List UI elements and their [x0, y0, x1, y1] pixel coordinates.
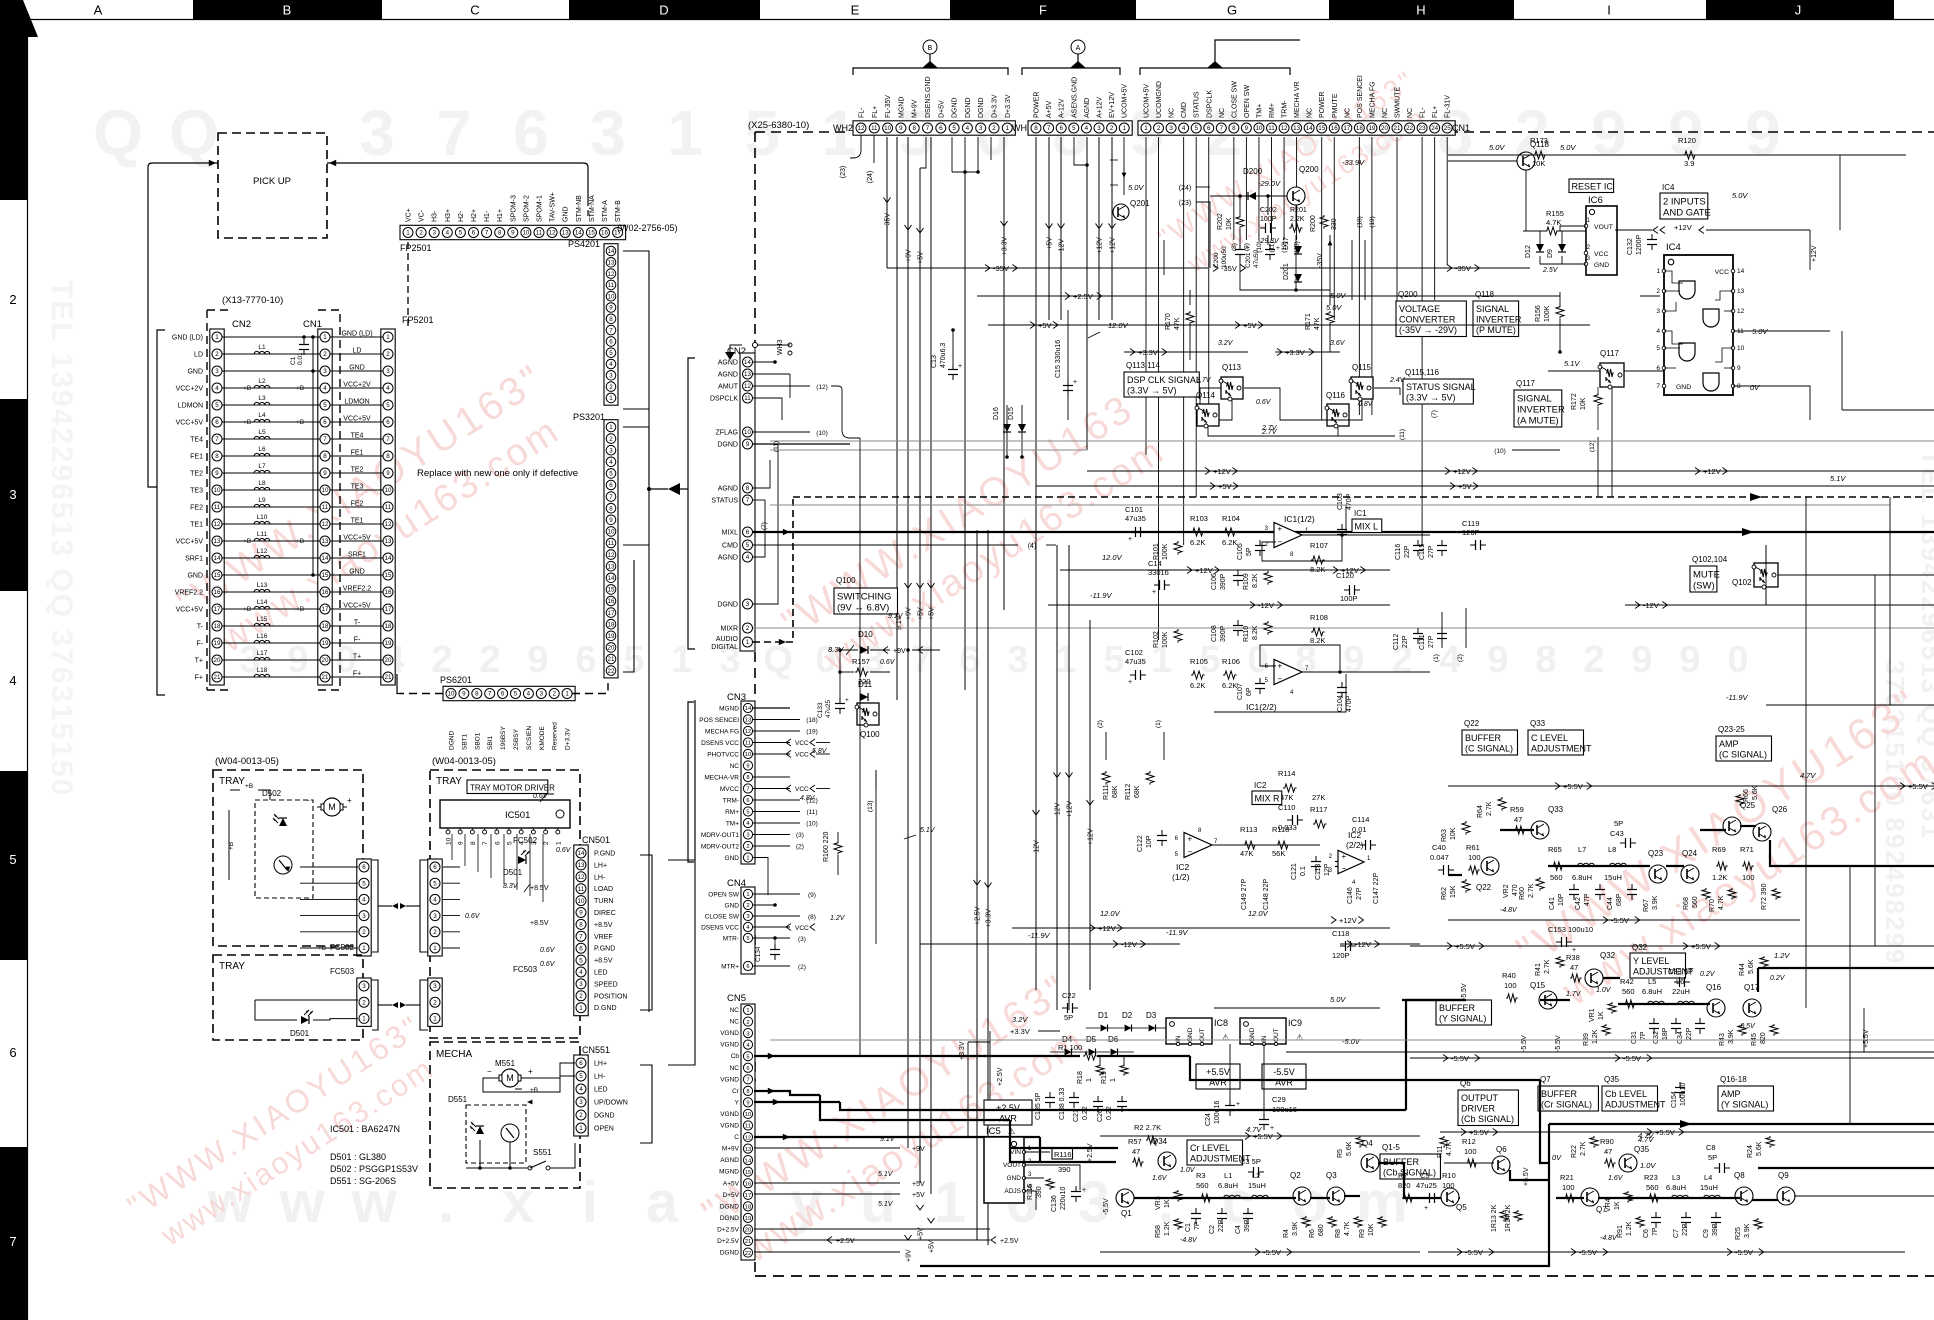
svg-text:2: 2 [579, 993, 583, 1000]
svg-text:AVR: AVR [999, 1114, 1017, 1124]
svg-text:IC501: IC501 [505, 810, 530, 821]
svg-text:MGND: MGND [719, 706, 739, 713]
svg-text:7: 7 [482, 841, 489, 845]
IC5 box [984, 1137, 1024, 1203]
svg-text:Q200: Q200 [1398, 290, 1418, 299]
svg-text:(2): (2) [1457, 654, 1464, 662]
svg-text:10: 10 [745, 752, 751, 758]
svg-text:DGND: DGND [720, 1215, 739, 1222]
svg-text:18: 18 [608, 621, 615, 628]
svg-text:R3: R3 [1196, 1171, 1206, 1180]
svg-text:100: 100 [1464, 1147, 1477, 1156]
svg-text:Reserved: Reserved [552, 722, 559, 750]
svg-text:7: 7 [1047, 125, 1051, 132]
svg-text:3: 3 [579, 981, 583, 988]
svg-text:21: 21 [608, 656, 615, 663]
svg-text:9: 9 [215, 470, 219, 477]
svg-text:11: 11 [322, 504, 329, 511]
bus +5V b [1036, 485, 1934, 487]
CN551 bracket [640, 1065, 652, 1143]
svg-text:D+3.3V: D+3.3V [992, 94, 999, 118]
svg-text:DSP CLK SIGNAL: DSP CLK SIGNAL [1127, 375, 1201, 385]
svg-text:Q32: Q32 [1632, 943, 1648, 952]
svg-text:R40: R40 [1502, 971, 1516, 980]
wire DGND bus [951, 137, 953, 172]
bus +3.3V [1124, 351, 1248, 353]
svg-text:-11.9V: -11.9V [1166, 928, 1189, 937]
svg-text:Q35: Q35 [1634, 1145, 1650, 1154]
svg-text:47K: 47K [1240, 849, 1253, 858]
svg-text:1.6V: 1.6V [1152, 1175, 1168, 1182]
svg-text:5: 5 [579, 1073, 583, 1080]
svg-text:R202: R202 [1217, 213, 1224, 230]
svg-text:(19): (19) [1369, 216, 1376, 228]
svg-text:SRF1: SRF1 [185, 556, 203, 563]
svg-text:D201: D201 [1283, 263, 1290, 280]
svg-text:(24): (24) [1179, 185, 1191, 192]
svg-text:(3): (3) [798, 936, 806, 943]
svg-text:R102: R102 [1153, 631, 1160, 648]
svg-text:470P: 470P [1346, 695, 1353, 712]
svg-text:AGND: AGND [1084, 98, 1091, 118]
svg-text:8.2K: 8.2K [1310, 636, 1325, 645]
svg-text:10K: 10K [1580, 397, 1587, 410]
svg-text:6: 6 [513, 97, 549, 169]
svg-text:12: 12 [322, 521, 329, 528]
svg-text:10: 10 [1256, 125, 1263, 132]
svg-text:3: 3 [609, 447, 613, 454]
svg-text:13: 13 [578, 862, 585, 869]
svg-text:L4: L4 [1704, 1173, 1712, 1182]
svg-text:10: 10 [608, 293, 615, 300]
svg-text:D: D [659, 3, 668, 18]
svg-text:R104: R104 [1222, 514, 1240, 523]
wire thick Cb route [1190, 1056, 1540, 1080]
svg-text:L8: L8 [258, 480, 266, 487]
svg-text:17: 17 [385, 606, 392, 613]
svg-text:ZFLAG: ZFLAG [715, 430, 738, 437]
svg-text:6.8uH: 6.8uH [1572, 873, 1592, 882]
svg-text:TRAY MOTOR DRIVER: TRAY MOTOR DRIVER [470, 783, 555, 792]
svg-text:Q1-5: Q1-5 [1382, 1143, 1400, 1152]
IC4 and gates [1679, 281, 1695, 299]
svg-text:Cb: Cb [731, 1053, 740, 1060]
svg-text:DGND: DGND [952, 97, 959, 118]
svg-text:Q102,104: Q102,104 [1692, 555, 1728, 564]
red watermark 4 [1508, 679, 1934, 1024]
svg-text:(3): (3) [796, 832, 804, 839]
svg-text:6: 6 [386, 419, 390, 426]
svg-text:Q22: Q22 [1476, 883, 1492, 892]
svg-text:+12V: +12V [1097, 237, 1104, 254]
connector WH1 [1028, 121, 1132, 135]
svg-text:M+9V: M+9V [912, 99, 919, 118]
svg-text:+12V: +12V [1213, 467, 1231, 476]
wire M551 to CN551 [525, 1063, 575, 1078]
svg-text:Q32: Q32 [1600, 951, 1616, 960]
svg-text:R113: R113 [1240, 825, 1257, 834]
svg-text:Q9: Q9 [1778, 1171, 1789, 1180]
svg-text:T+: T+ [353, 654, 361, 661]
connector FP2501 [400, 225, 626, 239]
svg-text:D.GND: D.GND [594, 1005, 617, 1012]
svg-text:LH+: LH+ [594, 862, 607, 869]
svg-text:DSENS VCC: DSENS VCC [701, 925, 739, 932]
svg-text:9: 9 [386, 470, 390, 477]
connector CN1 left stack [318, 329, 332, 685]
svg-text:47u35: 47u35 [1125, 657, 1146, 666]
bus -5.5V cr [1100, 1251, 1420, 1253]
svg-text:3.7V: 3.7V [1196, 377, 1212, 384]
svg-text:1: 1 [1006, 125, 1010, 132]
svg-text:-5.5V: -5.5V [1735, 1248, 1753, 1257]
svg-text:11: 11 [871, 125, 878, 132]
svg-text:R44: R44 [1739, 963, 1746, 976]
svg-text:2: 2 [992, 125, 996, 132]
svg-text:C138 0.33: C138 0.33 [1059, 1088, 1066, 1120]
svg-text:7: 7 [609, 327, 613, 334]
svg-text:Q23: Q23 [1648, 849, 1664, 858]
svg-text:2.7K: 2.7K [1544, 959, 1551, 974]
svg-text:GND: GND [1676, 384, 1691, 391]
svg-text:FL+: FL+ [1432, 106, 1439, 118]
svg-text:9: 9 [1591, 97, 1627, 169]
svg-text:5P: 5P [1614, 819, 1623, 828]
svg-text:16: 16 [322, 589, 329, 596]
svg-text:POWER: POWER [1034, 92, 1041, 118]
svg-text:R57: R57 [1128, 1137, 1142, 1146]
svg-text:2.7K: 2.7K [1528, 883, 1535, 898]
svg-text:4: 4 [1656, 328, 1660, 335]
svg-text:16: 16 [601, 230, 608, 237]
photo transistor D551 [501, 1124, 519, 1142]
svg-text:CN2: CN2 [232, 319, 251, 330]
svg-text:C108: C108 [1211, 625, 1218, 642]
svg-text:6: 6 [215, 419, 219, 426]
svg-text:13: 13 [744, 371, 751, 378]
wire MIXR [753, 627, 1934, 629]
svg-text:7P: 7P [1640, 1031, 1647, 1040]
svg-text:VIN: VIN [1010, 1149, 1021, 1156]
svg-text:7: 7 [746, 1078, 749, 1084]
svg-text:+5V: +5V [1243, 321, 1257, 330]
svg-text:4: 4 [609, 361, 613, 368]
svg-text:C6: C6 [1643, 1229, 1650, 1238]
svg-text:(X13-7770-10): (X13-7770-10) [222, 295, 283, 306]
svg-text:Q200: Q200 [1299, 165, 1319, 174]
svg-text:IC4: IC4 [1662, 183, 1675, 192]
bracket circled B [853, 68, 1008, 75]
svg-text:5: 5 [9, 852, 16, 867]
svg-text:BUFFER: BUFFER [1465, 733, 1502, 743]
svg-text:H1-: H1- [484, 210, 491, 222]
svg-text:+8.5V: +8.5V [594, 958, 613, 965]
svg-text:5: 5 [1072, 125, 1076, 132]
svg-text:20: 20 [1381, 125, 1388, 132]
box -5.5V AVR [1262, 1064, 1306, 1089]
svg-text:9: 9 [746, 441, 750, 448]
svg-text:-35V: -35V [1317, 253, 1324, 268]
svg-text:−: − [1188, 847, 1193, 856]
motor M tray left [323, 798, 341, 816]
svg-text:R70: R70 [1709, 899, 1716, 912]
svg-text:9: 9 [899, 125, 903, 132]
svg-text:L13: L13 [257, 582, 268, 589]
svg-text:11: 11 [1268, 125, 1275, 132]
svg-text:R108: R108 [1310, 613, 1328, 622]
svg-text:SWMUTE: SWMUTE [1395, 87, 1402, 118]
connector CN2 main [740, 353, 755, 651]
svg-text:3: 3 [1007, 639, 1028, 681]
svg-text:DGND: DGND [449, 731, 456, 750]
wire IC2a out [1212, 844, 1320, 846]
svg-text:DGND: DGND [965, 97, 972, 118]
svg-text:(P MUTE): (P MUTE) [1476, 325, 1516, 335]
svg-text:14: 14 [575, 230, 582, 237]
svg-text:6: 6 [579, 1060, 583, 1067]
svg-text:4: 4 [386, 385, 390, 392]
svg-text:3: 3 [746, 601, 750, 608]
wire +5V long b [930, 137, 932, 1194]
svg-text:1.7V: 1.7V [1566, 991, 1582, 998]
svg-text:0: 0 [1727, 639, 1748, 681]
svg-text:4: 4 [1085, 125, 1089, 132]
svg-text:R62: R62 [1441, 887, 1448, 900]
svg-text:12: 12 [578, 874, 585, 881]
left ruler line [27, 20, 29, 1320]
svg-text:0V: 0V [1552, 1153, 1562, 1162]
svg-text:ADJUSTMENT: ADJUSTMENT [1531, 744, 1592, 754]
svg-text:AMP: AMP [1721, 1089, 1741, 1099]
svg-text:15: 15 [385, 572, 392, 579]
svg-text:4.7K: 4.7K [1546, 218, 1561, 227]
svg-text:R111: R111 [1103, 784, 1110, 800]
svg-text:12: 12 [745, 1135, 751, 1141]
capacitor C1 left stack [303, 339, 305, 345]
svg-text:Q16: Q16 [1706, 983, 1722, 992]
svg-text:390: 390 [1058, 1165, 1071, 1174]
svg-text:+2.5V: +2.5V [975, 906, 982, 925]
svg-text:CN501: CN501 [582, 835, 610, 845]
svg-text:47: 47 [1132, 1147, 1140, 1156]
svg-text:22: 22 [745, 1251, 751, 1257]
svg-text:L12: L12 [257, 548, 268, 555]
mecha box [430, 1042, 580, 1188]
svg-text:14: 14 [322, 555, 329, 562]
connector FC502 left [357, 859, 371, 956]
svg-text:(Cb SIGNAL): (Cb SIGNAL) [1461, 1114, 1514, 1124]
svg-text:R11: R11 [1437, 1146, 1444, 1158]
svg-text:MECHA FG: MECHA FG [705, 729, 739, 736]
svg-text:+2.5V: +2.5V [1073, 292, 1093, 301]
svg-text:FL-31V: FL-31V [1445, 95, 1452, 118]
svg-text:+: + [1188, 835, 1193, 844]
svg-text:(11): (11) [1399, 429, 1406, 440]
svg-text:15: 15 [322, 572, 329, 579]
svg-text:5: 5 [609, 471, 613, 478]
svg-text:LOAD: LOAD [594, 886, 613, 893]
svg-text:+B: +B [245, 783, 253, 790]
svg-text:5: 5 [362, 880, 366, 887]
svg-text:100K: 100K [1162, 543, 1169, 560]
svg-text:11: 11 [744, 395, 751, 402]
svg-text:R101: R101 [1153, 543, 1160, 560]
svg-text:+5.5V: +5.5V [1206, 1067, 1230, 1077]
svg-text:14: 14 [1306, 125, 1313, 132]
svg-text:0.22: 0.22 [1106, 1106, 1113, 1120]
svg-text:L5: L5 [258, 429, 266, 436]
CN5 right wires [754, 1147, 900, 1149]
svg-text:AGND: AGND [718, 486, 738, 493]
svg-text:9: 9 [609, 305, 613, 312]
svg-text:7: 7 [386, 436, 390, 443]
svg-text:+: + [1236, 1101, 1240, 1108]
svg-text:G: G [1227, 3, 1237, 18]
svg-text:M: M [328, 802, 336, 812]
svg-text:6: 6 [362, 864, 366, 871]
svg-text:AND GATE: AND GATE [1663, 208, 1711, 219]
svg-text:-29.0V: -29.0V [1258, 179, 1281, 188]
svg-text:8: 8 [215, 453, 219, 460]
svg-text:5.6K: 5.6K [1756, 1141, 1763, 1156]
svg-text:14: 14 [1737, 268, 1745, 275]
connector CN4 [741, 887, 755, 974]
wires CN2-CN1 rows with inductors [222, 336, 320, 338]
svg-text:560: 560 [1692, 896, 1699, 908]
svg-text:6P: 6P [1246, 687, 1253, 696]
svg-text:RESET IC: RESET IC [1572, 182, 1614, 192]
svg-text:+B: +B [243, 419, 251, 426]
IC9 box [1240, 1018, 1286, 1044]
svg-text:+12V: +12V [1674, 223, 1692, 232]
box RESET IC [1569, 179, 1614, 193]
svg-text:10: 10 [522, 230, 529, 237]
svg-text:L5: L5 [1648, 977, 1656, 986]
svg-text:+8.5V: +8.5V [530, 885, 549, 892]
svg-text:2.5V: 2.5V [1542, 267, 1559, 274]
svg-text:⚠: ⚠ [1222, 1033, 1229, 1042]
svg-text:11: 11 [578, 886, 585, 893]
svg-text:C43: C43 [1610, 829, 1624, 838]
svg-text:680: 680 [1318, 1224, 1325, 1236]
svg-text:13: 13 [608, 563, 615, 570]
wires q113 cluster [1200, 388, 1221, 404]
svg-text:1: 1 [609, 424, 613, 431]
svg-text:(18): (18) [1356, 216, 1363, 228]
svg-text:.: . [438, 1170, 454, 1235]
svg-text:R42: R42 [1620, 977, 1634, 986]
svg-text:1: 1 [746, 1008, 749, 1014]
svg-text:BUFFER: BUFFER [1439, 1003, 1476, 1013]
svg-text:(Cr SIGNAL): (Cr SIGNAL) [1541, 1100, 1592, 1110]
svg-text:1: 1 [934, 1170, 966, 1235]
svg-text:MECHA VR: MECHA VR [1294, 81, 1301, 118]
svg-text:GND: GND [725, 903, 740, 910]
svg-text:120P: 120P [1332, 951, 1350, 960]
svg-text:15K: 15K [1450, 885, 1457, 898]
svg-text:+B: +B [296, 419, 304, 426]
svg-text:-5.5V: -5.5V [1273, 1067, 1295, 1077]
svg-text:0.6V: 0.6V [880, 659, 896, 666]
svg-text:8: 8 [1737, 383, 1741, 390]
svg-text:L7: L7 [258, 463, 266, 470]
svg-text:A-12V: A-12V [1059, 98, 1066, 118]
diode D501 right [518, 850, 530, 864]
svg-text:Q33: Q33 [1530, 719, 1546, 728]
svg-text:6: 6 [1207, 125, 1211, 132]
svg-text:6: 6 [9, 1045, 16, 1060]
svg-text:21: 21 [385, 674, 392, 681]
svg-text:i: i [582, 1170, 598, 1235]
svg-text:8: 8 [323, 453, 327, 460]
diode D502 dashed box [255, 800, 313, 898]
svg-text:5: 5 [746, 1054, 749, 1060]
svg-text:1.2K: 1.2K [1164, 1221, 1171, 1236]
svg-text:VCC: VCC [795, 786, 809, 793]
svg-text:MECHA-VR: MECHA-VR [704, 775, 739, 782]
svg-text:3.9K: 3.9K [1728, 1029, 1735, 1044]
svg-text:13: 13 [385, 538, 392, 545]
svg-text:M551: M551 [495, 1059, 516, 1068]
svg-text:R8: R8 [1335, 1229, 1342, 1238]
wires CN4 [753, 893, 800, 895]
svg-text:6.8uH: 6.8uH [1642, 987, 1662, 996]
svg-text:14: 14 [744, 359, 751, 366]
bracket circled A [1022, 68, 1120, 75]
svg-text:GND: GND [187, 573, 203, 580]
svg-text:13: 13 [1737, 288, 1745, 295]
svg-text:12: 12 [214, 521, 221, 528]
svg-text:MTR-: MTR- [723, 936, 739, 943]
svg-text:+5V: +5V [918, 251, 925, 264]
svg-text:12.0V: 12.0V [1108, 321, 1129, 330]
svg-text:-11.9V: -11.9V [1090, 591, 1113, 600]
svg-text:C111: C111 [1419, 634, 1426, 650]
svg-text:-12V: -12V [1059, 239, 1066, 254]
svg-text:19: 19 [1368, 125, 1375, 132]
svg-text:D502 : PSGGP1S53V: D502 : PSGGP1S53V [330, 1164, 418, 1174]
svg-text:GND (LD): GND (LD) [341, 331, 372, 338]
svg-text:UCOM+5V: UCOM+5V [1144, 84, 1151, 118]
svg-text:+3.3V: +3.3V [959, 1041, 966, 1060]
svg-text:3.9K: 3.9K [1652, 895, 1659, 910]
svg-text:2.2K: 2.2K [1290, 216, 1305, 223]
wire +9V long [907, 137, 909, 1148]
svg-text:6: 6 [609, 339, 613, 346]
svg-text:6: 6 [746, 964, 749, 970]
svg-text:+5V: +5V [912, 1192, 925, 1199]
svg-text:2: 2 [1110, 125, 1114, 132]
svg-text:(23): (23) [1179, 200, 1191, 207]
svg-text:2 INPUTS: 2 INPUTS [1663, 197, 1706, 208]
diode D501 left [301, 1010, 313, 1024]
svg-text:196BSY: 196BSY [500, 725, 507, 750]
svg-text:LED: LED [594, 970, 608, 977]
svg-text:(2): (2) [796, 844, 804, 851]
svg-text:100K: 100K [1544, 305, 1551, 322]
svg-text:9: 9 [609, 517, 613, 524]
svg-text:NC: NC [730, 1007, 740, 1014]
svg-text:D200: D200 [1243, 167, 1263, 176]
pickup block PICK UP [218, 133, 327, 238]
wire MIXL bus [753, 531, 1934, 533]
svg-text:TE4: TE4 [351, 433, 364, 440]
svg-text:AGND: AGND [718, 372, 738, 379]
wire drops WH2 [850, 135, 861, 158]
svg-text:(23): (23) [840, 166, 847, 178]
motor M551 [501, 1069, 519, 1087]
svg-text:100: 100 [1562, 1183, 1575, 1192]
